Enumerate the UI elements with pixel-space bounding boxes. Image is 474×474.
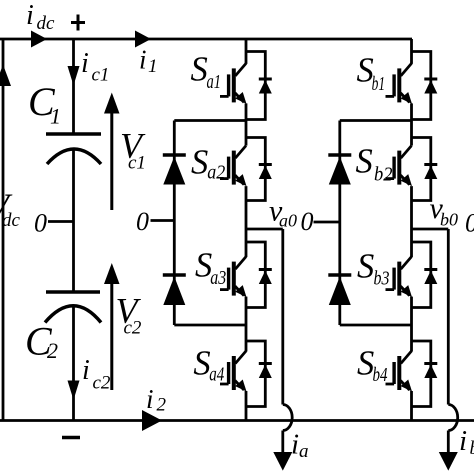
svg-text:2: 2 [157,395,167,416]
svg-text:a1: a1 [207,71,222,93]
svg-text:1: 1 [50,104,61,129]
svg-text:i: i [139,45,147,75]
svg-text:b0: b0 [440,210,458,230]
svg-text:b4: b4 [373,364,388,386]
svg-text:0: 0 [465,209,474,238]
svg-text:0: 0 [301,207,314,236]
svg-text:b3: b3 [374,268,390,290]
svg-text:2: 2 [47,338,58,363]
svg-text:S: S [356,143,373,181]
svg-text:b: b [470,438,474,459]
svg-text:a3: a3 [210,267,226,289]
svg-text:S: S [191,51,208,89]
svg-text:i: i [459,425,467,457]
svg-text:i: i [146,384,154,414]
svg-text:c2: c2 [93,373,111,394]
svg-text:0: 0 [136,207,149,236]
svg-text:a0: a0 [279,211,297,231]
svg-text:S: S [193,345,210,383]
svg-text:a2: a2 [207,162,225,184]
svg-text:1: 1 [148,56,158,77]
svg-text:c1: c1 [92,65,110,86]
svg-text:S: S [357,248,374,286]
svg-text:i: i [82,355,90,386]
svg-text:a4: a4 [209,364,224,386]
svg-text:0: 0 [34,209,47,238]
svg-text:a: a [299,441,309,462]
svg-text:c2: c2 [124,318,142,339]
svg-text:i: i [291,429,299,461]
svg-text:c1: c1 [128,153,146,174]
svg-text:dc: dc [37,13,56,34]
svg-text:i: i [81,48,89,79]
svg-text:dc: dc [2,210,21,231]
svg-text:b2: b2 [374,164,393,186]
svg-text:i: i [26,0,34,31]
svg-text:b1: b1 [372,73,386,95]
svg-text:S: S [191,144,208,182]
